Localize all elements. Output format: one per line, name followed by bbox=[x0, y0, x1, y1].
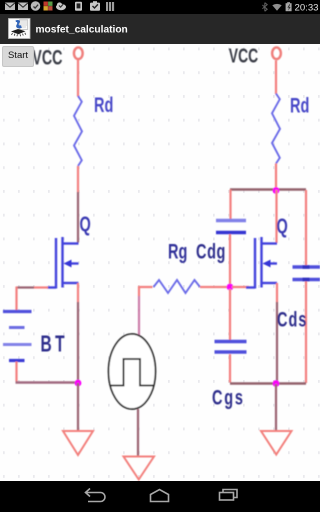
svg-text:Cdg: Cdg bbox=[196, 240, 226, 263]
multicolour app icon bbox=[44, 2, 53, 11]
svg-text:VCC: VCC bbox=[32, 46, 62, 69]
resistor Rd right bbox=[272, 94, 280, 164]
capacitor Cdg bbox=[216, 190, 246, 286]
wire pulse bottom to ground bbox=[137, 409, 139, 457]
wire battery bottom bbox=[16, 362, 79, 383]
svg-text:Cgs: Cgs bbox=[212, 386, 245, 409]
app launcher icon bbox=[0, 14, 320, 44]
wifi icon bbox=[272, 4, 281, 11]
wire drain node horizontal bbox=[230, 188, 306, 190]
label BT bbox=[41, 331, 68, 357]
junction node drain right bbox=[273, 187, 280, 194]
ground middle bbox=[124, 457, 155, 480]
label Cgs bbox=[212, 386, 245, 409]
transistor Q right bbox=[246, 237, 277, 289]
ground right bbox=[261, 431, 292, 455]
battery BT bbox=[3, 312, 32, 361]
small device icon bbox=[75, 2, 82, 11]
VCC left pin bbox=[74, 48, 83, 60]
label Rd right bbox=[290, 94, 309, 117]
envelope icon 1 bbox=[5, 3, 15, 11]
navigation bar bbox=[0, 481, 320, 512]
svg-text:VCC: VCC bbox=[229, 44, 259, 67]
transistor Q left bbox=[47, 237, 79, 289]
pulse source V1 bbox=[109, 334, 156, 409]
label Q left bbox=[80, 212, 91, 235]
wire Rg right to gate node bbox=[200, 286, 227, 288]
label Rd left bbox=[94, 93, 113, 116]
svg-text:mosfet_calculation: mosfet_calculation bbox=[36, 25, 128, 36]
title bar bbox=[0, 14, 320, 44]
svg-text:Q: Q bbox=[80, 212, 91, 235]
wire to ground left bbox=[77, 383, 79, 431]
back button bbox=[86, 489, 106, 502]
Start button bbox=[2, 46, 34, 67]
junction node left bottom bbox=[75, 380, 82, 387]
sim bars icon bbox=[106, 2, 114, 11]
svg-text:Rd: Rd bbox=[290, 94, 309, 117]
label Q right bbox=[277, 214, 288, 237]
wire Rd right to drain node bbox=[275, 164, 277, 189]
wire Rd left to drain bbox=[77, 166, 79, 243]
status bar bbox=[0, 0, 320, 14]
label Rg bbox=[168, 240, 187, 263]
svg-text:BT: BT bbox=[41, 331, 68, 357]
svg-text:Q: Q bbox=[277, 214, 288, 237]
wire to ground right bbox=[275, 384, 277, 431]
wire bottom node horizontal bbox=[230, 382, 306, 384]
bluetooth icon bbox=[262, 3, 267, 12]
svg-text:Rg: Rg bbox=[168, 240, 187, 263]
label Cds bbox=[277, 308, 307, 331]
wire VCC left to Rd bbox=[77, 60, 79, 97]
home button bbox=[151, 490, 169, 502]
junction node gate right bbox=[227, 284, 234, 291]
wire gate node to Q right bbox=[232, 286, 249, 288]
ground left bbox=[63, 431, 93, 455]
clock icon bbox=[31, 1, 41, 11]
wire drain node to Q right bbox=[275, 190, 277, 243]
svg-text:Cds: Cds bbox=[277, 308, 307, 331]
resistor Rd left bbox=[74, 96, 82, 166]
resistor Rg bbox=[154, 280, 201, 293]
wire VCC right to Rd bbox=[275, 61, 277, 95]
capacitor Cgs bbox=[215, 289, 247, 383]
wire source left down bbox=[77, 283, 79, 383]
recents button bbox=[223, 490, 237, 498]
VCC right pin bbox=[272, 48, 281, 60]
svg-text:Rd: Rd bbox=[94, 93, 113, 116]
node VCC left label bbox=[32, 46, 62, 69]
wire gate left to battery bbox=[17, 287, 49, 311]
capacitor Cds bbox=[293, 190, 320, 383]
cloud/pencil icon bbox=[56, 2, 66, 10]
node VCC right label bbox=[229, 44, 259, 67]
battery icon bbox=[286, 2, 292, 11]
wire pulse top bbox=[139, 287, 153, 335]
wire source right down bbox=[276, 283, 278, 383]
briefcase-check icon bbox=[90, 1, 100, 11]
envelope icon 2 bbox=[18, 3, 28, 11]
label Cdg bbox=[196, 240, 226, 263]
junction node bottom right bbox=[273, 380, 280, 387]
svg-text:20:33: 20:33 bbox=[295, 2, 319, 13]
